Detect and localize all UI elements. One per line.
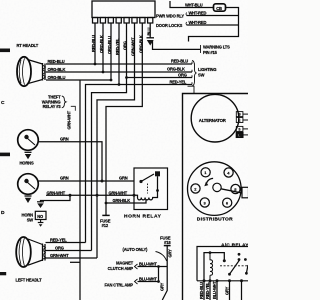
wire ORG headlight bbox=[46, 250, 92, 252]
switch blade horn relay bbox=[141, 174, 154, 182]
svg-text:GRN: GRN bbox=[60, 137, 69, 142]
rotation arrow bbox=[204, 178, 213, 186]
wire ORG vertical bbox=[92, 23, 127, 251]
wire AC out 3 bbox=[216, 281, 218, 300]
node ORG junction bbox=[125, 76, 128, 79]
svg-text:GRN: GRN bbox=[60, 176, 69, 181]
node horn switch tap bbox=[69, 194, 72, 197]
svg-text:HORNS: HORNS bbox=[20, 161, 34, 166]
pin 6 bbox=[132, 18, 137, 24]
svg-text:RED-YEL: RED-YEL bbox=[115, 38, 120, 55]
svg-text:HORN RELAY: HORN RELAY bbox=[124, 213, 162, 219]
dashed AC link bbox=[220, 265, 248, 267]
node AC contact top bbox=[223, 259, 226, 262]
horn 1 bbox=[18, 130, 39, 151]
wire RED-YEL headlight bbox=[46, 242, 86, 244]
wire horn switch drop bbox=[41, 195, 71, 201]
horn switch NO box bbox=[35, 211, 46, 219]
svg-text:C: C bbox=[1, 100, 5, 106]
distributor plug 3 bbox=[200, 198, 209, 207]
wire GRY main bbox=[162, 246, 167, 300]
RT headlight bbox=[17, 57, 46, 86]
node GRN-WHT tap bbox=[96, 194, 99, 197]
wire WHT-RED 2 bbox=[187, 24, 239, 26]
box corner tick bbox=[188, 86, 195, 93]
label GRN-WHT vertical bbox=[67, 106, 76, 129]
wire AC out 1 bbox=[203, 281, 205, 300]
svg-text:DISTRIBUTOR: DISTRIBUTOR bbox=[197, 217, 233, 223]
wire stub bottom bbox=[70, 261, 80, 263]
node AC coil tap bbox=[209, 251, 212, 254]
svg-text:LIGHTING: LIGHTING bbox=[198, 67, 216, 72]
ground horn2 bbox=[25, 196, 32, 203]
node AC out 5 bbox=[240, 279, 243, 282]
svg-text:WHT-RED: WHT-RED bbox=[189, 11, 207, 16]
svg-text:BLU-WHT: BLU-WHT bbox=[139, 277, 157, 282]
svg-text:D: D bbox=[1, 210, 5, 216]
wire ORG horizontal bbox=[127, 77, 193, 79]
wire ORG-BLU vertical bbox=[110, 23, 112, 80]
svg-text:RED-BLU: RED-BLU bbox=[171, 59, 188, 64]
node ORG-BLU junction bbox=[110, 79, 113, 82]
wire AC out 4 bbox=[229, 281, 231, 300]
wire GRN-WHT headlight bbox=[46, 257, 98, 259]
contact square horn relay bbox=[155, 171, 160, 176]
svg-text:A/C RELAY: A/C RELAY bbox=[221, 242, 248, 248]
wire ORG-BLK horizontal bbox=[46, 71, 192, 73]
AC switch blade 1 bbox=[228, 253, 240, 276]
connector bar mid-left bbox=[0, 153, 10, 157]
node ORG-BLK junction bbox=[102, 71, 105, 74]
node coil contact bbox=[156, 189, 159, 192]
svg-text:GRN-WHT: GRN-WHT bbox=[50, 253, 69, 258]
distributor bbox=[188, 162, 242, 223]
brace PWR WDO bbox=[185, 13, 188, 16]
pin 3 bbox=[108, 18, 113, 24]
fuse F18 terminal bbox=[164, 245, 171, 247]
node AC out 1 bbox=[203, 279, 206, 282]
svg-text:PIN #15: PIN #15 bbox=[203, 50, 218, 55]
svg-text:SW: SW bbox=[27, 217, 34, 222]
label HORN SW bbox=[22, 212, 34, 222]
svg-text:PWR WDO RLY: PWR WDO RLY bbox=[156, 14, 184, 19]
pin 4 bbox=[116, 18, 121, 24]
wire BLU-WHT magnet bbox=[138, 266, 168, 268]
wire GRN-BLK bbox=[106, 202, 134, 204]
node horn junction bbox=[101, 180, 104, 183]
svg-text:GRN-WHT: GRN-WHT bbox=[131, 37, 136, 56]
svg-text:GRN-WHT: GRN-WHT bbox=[109, 190, 128, 195]
alternator bbox=[191, 94, 239, 142]
wire to warning lights bbox=[153, 41, 201, 49]
svg-text:(AUTO ONLY): (AUTO ONLY) bbox=[123, 247, 149, 252]
distributor plug 4 bbox=[224, 168, 233, 177]
fuse F12 symbol bbox=[102, 203, 109, 215]
svg-text:GRN: GRN bbox=[119, 176, 128, 181]
svg-text:ORG: ORG bbox=[178, 73, 187, 78]
AC relay coil bbox=[210, 253, 213, 281]
node BLU-WHT bottom bbox=[157, 280, 160, 283]
svg-text:RED-YEL: RED-YEL bbox=[205, 282, 210, 299]
node RED-BLU junction bbox=[94, 63, 97, 66]
brace DOOR LOCKS bbox=[185, 22, 188, 25]
svg-text:RED-BLU: RED-BLU bbox=[91, 35, 96, 52]
wire CB output bbox=[189, 8, 239, 42]
wire GRN-WHT horn relay bbox=[46, 194, 134, 196]
wire RED-BLU vertical bbox=[94, 23, 96, 64]
wire AC out 2 bbox=[209, 281, 211, 300]
horn relay box bbox=[134, 168, 168, 210]
distributor plug 1 bbox=[201, 168, 210, 177]
wire rotor lead bbox=[221, 189, 242, 193]
distributor plug 5 bbox=[231, 184, 240, 193]
connector bar top-left bbox=[0, 49, 10, 53]
svg-text:BLU-WHT: BLU-WHT bbox=[212, 281, 217, 299]
label FUSE #18 bbox=[160, 235, 171, 245]
svg-text:NO: NO bbox=[37, 214, 44, 219]
wire GRN-WHT vertical bbox=[97, 23, 135, 258]
svg-text:DOOR LOCKS: DOOR LOCKS bbox=[156, 23, 183, 28]
pin 1 bbox=[93, 18, 98, 24]
wire ORG-BLK vertical bbox=[102, 23, 104, 72]
alternator terminal S bbox=[236, 126, 248, 131]
svg-text:CLUTCH AMP: CLUTCH AMP bbox=[108, 266, 134, 271]
horn 2 bbox=[18, 174, 39, 195]
svg-text:GRY: GRY bbox=[225, 286, 230, 295]
svg-text:WARNING LTS: WARNING LTS bbox=[203, 45, 230, 50]
wire ORG-BLU horizontal bbox=[46, 79, 111, 81]
wire horn2 GRN bbox=[38, 180, 134, 182]
svg-text:ORG-BLU: ORG-BLU bbox=[107, 36, 112, 54]
wire WHT-RED 1 bbox=[187, 15, 239, 17]
arrow magnet clutch bbox=[135, 264, 138, 269]
svg-text:ORG-BLK: ORG-BLK bbox=[167, 67, 185, 72]
circuit breaker CB bbox=[214, 4, 226, 11]
distributor rotor hub bbox=[213, 183, 221, 191]
wire BLU vertical bbox=[149, 23, 151, 38]
node RED-YEL junction bbox=[118, 83, 121, 86]
svg-text:ORG-BLK: ORG-BLK bbox=[139, 35, 144, 53]
pin 5 bbox=[124, 18, 129, 24]
node relay GRN contact bbox=[139, 180, 142, 183]
coil horn relay bbox=[134, 176, 158, 200]
ground horn switch bottom bbox=[38, 220, 44, 227]
coil terminal box bbox=[242, 187, 249, 198]
svg-text:ORG-BLU: ORG-BLU bbox=[48, 75, 66, 80]
connector bar left bottom bbox=[0, 272, 6, 275]
pin 2 bbox=[100, 18, 105, 24]
svg-text:#18: #18 bbox=[164, 240, 171, 245]
engine compartment box bbox=[183, 94, 249, 300]
svg-text:RED-BLU: RED-BLU bbox=[48, 59, 65, 64]
wire ORG-BLK 2 vertical bbox=[106, 23, 142, 203]
label WARNING LTS PIN #15 bbox=[201, 45, 231, 55]
svg-text:BLU-WHT: BLU-WHT bbox=[139, 262, 157, 267]
svg-text:S: S bbox=[238, 128, 240, 132]
node AC out 2 bbox=[209, 279, 212, 282]
node fuse tap bbox=[105, 202, 108, 205]
label FUSE #12 bbox=[100, 218, 111, 228]
svg-text:RT HEADLT: RT HEADLT bbox=[17, 43, 39, 48]
node BLU-WHT top bbox=[157, 265, 160, 268]
svg-text:ALTERNATOR: ALTERNATOR bbox=[199, 118, 227, 123]
wire AC out 5 bbox=[241, 281, 243, 300]
svg-text:GRY: GRY bbox=[168, 249, 173, 258]
distributor plug 6 bbox=[223, 198, 232, 207]
AC switch blade 2 bbox=[244, 258, 248, 275]
alternator terminal E bbox=[236, 118, 248, 123]
svg-text:GRY: GRY bbox=[160, 282, 165, 291]
svg-text:FAN CTRL AMP: FAN CTRL AMP bbox=[105, 282, 134, 287]
svg-text:#12: #12 bbox=[102, 223, 109, 228]
svg-text:BLU: BLU bbox=[146, 27, 151, 35]
pin 7 bbox=[140, 18, 145, 24]
svg-text:RED-YEL: RED-YEL bbox=[170, 80, 187, 85]
wire BLU-WHT fan bbox=[138, 281, 159, 283]
ground BLU bbox=[147, 38, 155, 46]
brace lighting switch bbox=[192, 61, 197, 87]
svg-text:ORG: ORG bbox=[55, 246, 64, 251]
svg-text:GRN-WHT: GRN-WHT bbox=[67, 110, 72, 129]
ground horn1 bbox=[25, 152, 32, 159]
node AC out 3 bbox=[216, 279, 219, 282]
wire end ticks lighting sw bbox=[191, 62, 193, 85]
fuse block J1 (top box) bbox=[92, 1, 155, 18]
pin 8 bbox=[148, 18, 153, 24]
node AC out 4 bbox=[228, 279, 231, 282]
ground horn switch top bbox=[37, 202, 44, 208]
dashed relay link bbox=[147, 184, 149, 194]
svg-text:ORG-BLK: ORG-BLK bbox=[99, 35, 104, 53]
left headlight bbox=[16, 237, 45, 267]
label MAGNET CLUTCH AMP bbox=[108, 261, 134, 272]
svg-text:RELAY #3: RELAY #3 bbox=[43, 104, 62, 109]
svg-text:CB: CB bbox=[216, 6, 222, 11]
wire WHT-BLU bbox=[170, 1, 214, 8]
svg-text:LEFT HEADLT: LEFT HEADLT bbox=[16, 278, 43, 283]
wire RED-YEL horizontal bbox=[119, 84, 192, 86]
alternator terminal L bbox=[236, 132, 248, 137]
svg-text:GRN-WHT: GRN-WHT bbox=[47, 190, 66, 195]
svg-text:RED-YEL: RED-YEL bbox=[50, 238, 67, 243]
wire BLU-WHT link bbox=[158, 267, 160, 282]
wire GRN-BLK inside bbox=[134, 200, 146, 204]
wire AC internal 1 bbox=[204, 253, 224, 281]
svg-text:RED-BLU: RED-BLU bbox=[199, 282, 204, 299]
svg-text:WHT-BLU: WHT-BLU bbox=[185, 3, 203, 8]
svg-text:E: E bbox=[238, 119, 240, 123]
svg-text:WHT-RED: WHT-RED bbox=[189, 20, 207, 25]
wire ORG-BLU column bbox=[79, 80, 81, 300]
leader curve auto only bbox=[156, 252, 167, 262]
wire RED-BLU horizontal bbox=[46, 63, 192, 65]
svg-text:ORG: ORG bbox=[123, 41, 128, 50]
A/C relay box bbox=[197, 247, 248, 281]
distributor plug 2 bbox=[191, 184, 200, 193]
arrow fan ctrl bbox=[135, 279, 138, 284]
svg-text:MAGNET: MAGNET bbox=[116, 261, 133, 266]
theft warning relay label bbox=[42, 95, 66, 110]
wire RED-YEL vertical bbox=[86, 23, 120, 243]
label LIGHTING SW bbox=[198, 67, 216, 78]
wire horn1 GRN bbox=[38, 142, 102, 181]
svg-text:ORG-BLK: ORG-BLK bbox=[48, 67, 66, 72]
svg-text:SW: SW bbox=[198, 72, 205, 77]
alternator terminal B bbox=[236, 112, 248, 117]
